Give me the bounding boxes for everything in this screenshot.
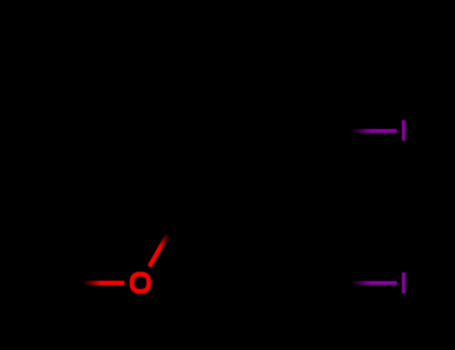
benzene ring edge C4-C5 bbox=[139, 55, 183, 131]
benzene ring edge C6-C1 bbox=[271, 55, 315, 131]
atom label I (iodomethyl iodine) bbox=[402, 272, 406, 293]
benzene ring edge C3-C4 bbox=[139, 131, 183, 207]
atom label I (aryl iodine) bbox=[402, 120, 406, 141]
bond CH3-O (red fading to dark at left) bbox=[51, 281, 125, 285]
benzene ring edge C2-C3 bbox=[183, 205, 271, 209]
bond C2-CH2 bbox=[271, 207, 315, 283]
benzene ring edge C1-C2 bbox=[271, 131, 315, 207]
bond CH2-I (dark to purple) bbox=[315, 281, 397, 285]
bond C1-I (dark to purple) bbox=[315, 129, 397, 133]
benzene double bond inner line C1=C2 bbox=[267, 137, 301, 196]
bond O-C3 (red at O end, dark at ring end) bbox=[150, 207, 184, 267]
benzene double bond inner line C3=C4 bbox=[153, 137, 187, 196]
benzene ring edge C5-C6 bbox=[183, 53, 271, 57]
atom label O (methoxy oxygen) bbox=[132, 274, 149, 291]
benzene double bond inner line C5=C6 bbox=[193, 66, 261, 70]
